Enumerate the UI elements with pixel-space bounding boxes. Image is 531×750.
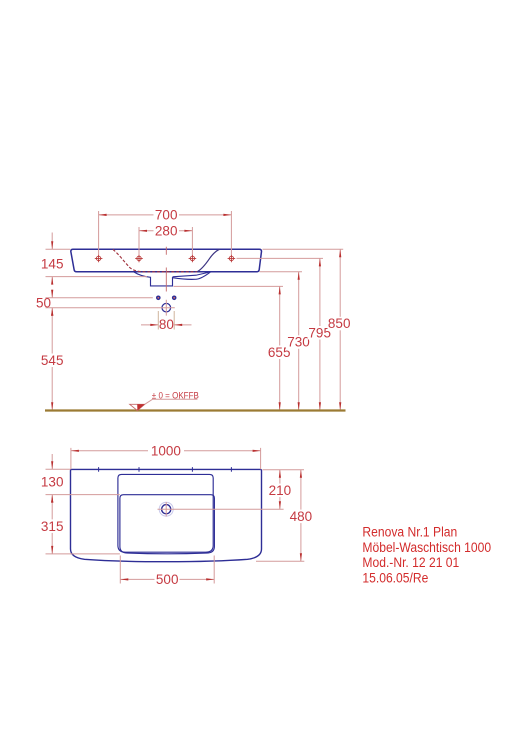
svg-text:700: 700 <box>155 208 178 223</box>
svg-text:Möbel-Waschtisch 1000: Möbel-Waschtisch 1000 <box>362 539 491 555</box>
svg-text:280: 280 <box>155 223 178 238</box>
svg-text:1000: 1000 <box>151 444 181 459</box>
svg-text:210: 210 <box>269 483 292 498</box>
dimension 545 (left) <box>40 308 65 411</box>
svg-text:500: 500 <box>156 572 179 587</box>
svg-text:850: 850 <box>328 316 351 331</box>
dimension 50 (left) <box>36 290 158 316</box>
dimension 210 (plan right) <box>268 470 293 509</box>
svg-text:50: 50 <box>36 296 51 311</box>
title text block <box>362 524 491 586</box>
dimension 145 (left) <box>41 233 147 285</box>
plan outline <box>71 469 262 561</box>
drain hole circle <box>162 303 171 312</box>
dimension 130 (plan left) <box>41 454 120 503</box>
svg-text:Mod.-Nr. 12 21 01: Mod.-Nr. 12 21 01 <box>362 554 459 570</box>
extension line 730 top <box>260 271 303 273</box>
fixing hole left <box>156 296 161 301</box>
bowl rim rect (plan) <box>118 474 213 552</box>
dimension 500 (plan bottom) <box>120 556 214 588</box>
dimension 315 (plan left) <box>40 495 120 554</box>
dimension 795 <box>308 258 333 410</box>
tap hole symbol 2 <box>135 255 143 263</box>
bowl underside inner edge line <box>173 272 211 277</box>
dimension 1000 <box>71 444 261 470</box>
svg-text:± 0 = OKFFB: ± 0 = OKFFB <box>152 390 199 401</box>
svg-text:80: 80 <box>159 317 174 332</box>
extension line plan top right <box>263 469 305 471</box>
tap hole symbol 4 <box>228 255 236 263</box>
level symbol triangle <box>130 399 198 410</box>
plan drain halo <box>159 502 173 516</box>
extension line plan bottom right <box>256 560 304 562</box>
plan drain hole <box>162 505 171 514</box>
dimension 655 <box>267 286 292 410</box>
floor line OKFFB <box>45 409 346 411</box>
dimension 730 <box>286 272 311 411</box>
svg-text:545: 545 <box>41 353 64 368</box>
hidden bowl interior curve (dashed) <box>113 249 197 271</box>
dimension 80 (below drain) <box>141 311 192 332</box>
svg-text:480: 480 <box>290 509 313 524</box>
vertical centerline <box>165 247 167 292</box>
dimension 700 <box>99 208 232 255</box>
bowl right wall visible edge <box>197 249 220 271</box>
drain hole crosshair <box>158 300 175 316</box>
bowl inner rect (plan) <box>120 495 214 554</box>
tap hole symbol 3 <box>189 255 197 263</box>
basin slab outline (front view) <box>71 249 262 272</box>
fixing hole right <box>172 296 177 301</box>
tap hole tick marks on plan top edge <box>99 467 232 472</box>
svg-text:145: 145 <box>41 257 64 272</box>
dimension 480 (plan right) <box>289 470 314 561</box>
dimension 280 <box>139 223 192 254</box>
svg-text:315: 315 <box>41 519 64 534</box>
svg-text:15.06.05/Re: 15.06.05/Re <box>362 570 428 586</box>
plan drain crosshair <box>158 502 176 516</box>
extension line plan drain right <box>175 508 284 510</box>
extension line 795 top <box>237 257 324 259</box>
svg-text:Renova Nr.1 Plan: Renova Nr.1 Plan <box>362 524 457 540</box>
svg-text:730: 730 <box>287 335 310 350</box>
extension line 850 top <box>263 248 344 250</box>
dimension 850 <box>328 249 353 410</box>
svg-text:130: 130 <box>41 475 64 490</box>
extension line 655 top <box>174 285 284 287</box>
tap hole symbol 1 <box>95 255 103 263</box>
bowl underside bulge with drain stub (front view) <box>134 272 211 286</box>
